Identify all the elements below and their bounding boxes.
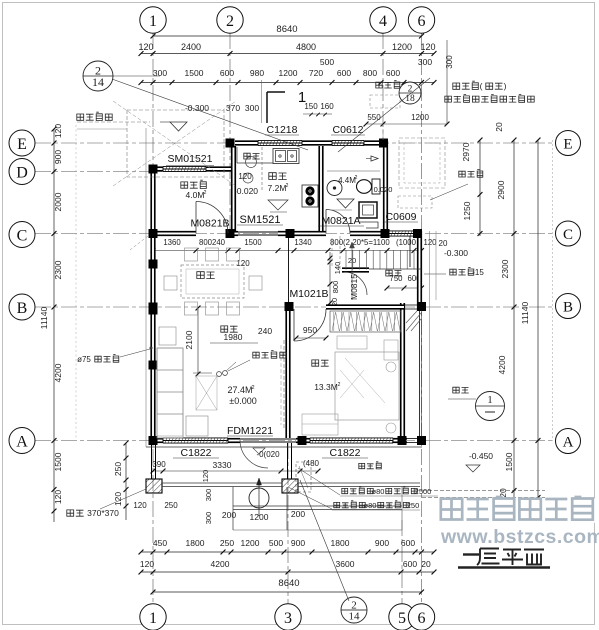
svg-text:C: C — [17, 227, 28, 244]
svg-text:2500: 2500 — [415, 487, 432, 496]
svg-text:E: E — [17, 136, 27, 153]
svg-text:120: 120 — [140, 559, 154, 569]
svg-text:20: 20 — [439, 239, 448, 248]
svg-text:300: 300 — [153, 68, 167, 78]
svg-text:1800: 1800 — [186, 538, 205, 548]
svg-text:1: 1 — [149, 610, 157, 627]
svg-text:250: 250 — [113, 462, 123, 476]
svg-text:(1000: (1000 — [396, 238, 417, 247]
svg-text:18: 18 — [405, 94, 415, 104]
svg-text:500: 500 — [320, 57, 334, 67]
svg-text:B: B — [17, 300, 28, 317]
svg-text:200: 200 — [222, 510, 236, 520]
svg-text:600: 600 — [220, 68, 234, 78]
svg-text:160: 160 — [320, 102, 334, 111]
svg-text:1500: 1500 — [53, 452, 63, 471]
svg-text:M0821A: M0821A — [321, 215, 360, 227]
svg-text:2000: 2000 — [53, 192, 63, 211]
svg-text:1500: 1500 — [504, 452, 514, 471]
svg-text:1200: 1200 — [411, 113, 429, 122]
svg-text:1360: 1360 — [163, 238, 181, 247]
svg-text:1200: 1200 — [241, 538, 260, 548]
svg-text:2: 2 — [338, 382, 341, 388]
svg-text:1500: 1500 — [185, 68, 204, 78]
svg-text:SM1521: SM1521 — [240, 214, 281, 226]
svg-text:300: 300 — [204, 512, 213, 525]
svg-text:1800: 1800 — [331, 538, 350, 548]
svg-text:(: ( — [480, 81, 483, 91]
svg-text:250: 250 — [220, 538, 234, 548]
svg-text:13.3M: 13.3M — [314, 382, 338, 392]
svg-text:250: 250 — [164, 501, 178, 510]
svg-text:600: 600 — [337, 68, 351, 78]
svg-text:3: 3 — [284, 610, 292, 627]
svg-text:390: 390 — [152, 460, 166, 469]
svg-text:M0815: M0815 — [349, 274, 359, 300]
svg-text:4200: 4200 — [497, 355, 507, 374]
svg-text:2900: 2900 — [496, 180, 506, 199]
svg-text:2100: 2100 — [184, 330, 194, 349]
svg-text:300: 300 — [204, 489, 213, 502]
svg-text:-0.450: -0.450 — [469, 451, 493, 461]
svg-text:2300: 2300 — [500, 259, 510, 278]
svg-text:120: 120 — [53, 490, 63, 504]
svg-text:300: 300 — [445, 55, 454, 69]
svg-text:120: 120 — [113, 492, 123, 506]
svg-text:SM01521: SM01521 — [168, 153, 213, 165]
svg-text:-0(020: -0(020 — [256, 450, 280, 459]
svg-text:C0609: C0609 — [386, 211, 417, 223]
svg-text:C1822: C1822 — [330, 447, 361, 459]
svg-text:1500: 1500 — [244, 238, 262, 247]
svg-text:600: 600 — [403, 559, 417, 569]
svg-text:120: 120 — [420, 42, 435, 52]
svg-text:2: 2 — [355, 175, 358, 181]
svg-text:900: 900 — [375, 538, 389, 548]
svg-text:2: 2 — [251, 385, 254, 391]
svg-text:C0612: C0612 — [333, 124, 364, 136]
svg-text:250: 250 — [407, 501, 420, 510]
svg-text:6: 6 — [418, 610, 426, 627]
svg-text:C1822: C1822 — [181, 447, 212, 459]
svg-text:4: 4 — [379, 13, 387, 30]
svg-text:450: 450 — [153, 538, 167, 548]
svg-text:4200: 4200 — [211, 559, 230, 569]
svg-text:www.bstzcs.com: www.bstzcs.com — [440, 526, 599, 548]
svg-text:120: 120 — [423, 238, 437, 247]
svg-text:3600: 3600 — [336, 559, 355, 569]
svg-text:600: 600 — [401, 538, 415, 548]
svg-text:2970: 2970 — [461, 142, 471, 161]
svg-text:FDM1221: FDM1221 — [227, 425, 273, 437]
svg-text:7.2M: 7.2M — [268, 183, 287, 193]
svg-text:E: E — [563, 136, 572, 152]
svg-text:1340: 1340 — [294, 238, 312, 247]
svg-text:M0821B: M0821B — [190, 218, 229, 230]
svg-text:800: 800 — [363, 68, 377, 78]
svg-text:2: 2 — [204, 190, 207, 196]
svg-text:240: 240 — [258, 326, 272, 336]
svg-text:): ) — [504, 81, 507, 91]
svg-text:140: 140 — [333, 262, 342, 275]
svg-text:500: 500 — [269, 538, 283, 548]
svg-text:4800: 4800 — [296, 42, 316, 52]
svg-text:D: D — [16, 164, 28, 181]
svg-text:27.4M: 27.4M — [227, 385, 252, 395]
svg-text:A: A — [563, 434, 574, 450]
svg-text:ø80: ø80 — [364, 501, 377, 510]
svg-text:20: 20 — [421, 559, 431, 569]
svg-text:14: 14 — [349, 610, 361, 622]
svg-text:6: 6 — [418, 13, 426, 30]
svg-text:ø75: ø75 — [77, 355, 91, 364]
svg-text:4200: 4200 — [53, 363, 63, 382]
svg-text:20*5=1100: 20*5=1100 — [352, 238, 390, 247]
svg-text:120: 120 — [53, 124, 63, 138]
svg-text:800: 800 — [331, 281, 340, 294]
svg-text:3330: 3330 — [213, 460, 232, 470]
svg-text:900: 900 — [291, 538, 305, 548]
svg-text:150: 150 — [304, 102, 318, 111]
svg-text:120: 120 — [201, 470, 210, 483]
svg-text:M1021B: M1021B — [289, 288, 328, 300]
svg-text:8640: 8640 — [278, 578, 299, 589]
svg-text:600: 600 — [386, 68, 400, 78]
svg-text:-0.300: -0.300 — [185, 103, 209, 113]
svg-text:2: 2 — [286, 183, 289, 189]
svg-text:370*370: 370*370 — [87, 508, 119, 518]
svg-text:120: 120 — [238, 172, 252, 181]
svg-text:11140: 11140 — [520, 302, 530, 325]
svg-text:-0.020: -0.020 — [234, 186, 258, 196]
svg-text:±0.000: ±0.000 — [229, 396, 256, 406]
svg-text:980: 980 — [250, 68, 264, 78]
svg-text:ø80: ø80 — [372, 487, 385, 496]
svg-text:14: 14 — [92, 75, 104, 89]
svg-text:1: 1 — [487, 394, 493, 406]
svg-text:11140: 11140 — [39, 307, 49, 330]
svg-text:1200: 1200 — [392, 42, 412, 52]
svg-text:370: 370 — [226, 103, 240, 113]
svg-text:20: 20 — [494, 122, 504, 132]
svg-text:8640: 8640 — [276, 24, 297, 35]
svg-text:-0.300: -0.300 — [444, 248, 468, 258]
svg-text:750: 750 — [389, 274, 403, 283]
svg-text:2: 2 — [226, 13, 234, 30]
svg-text:B: B — [563, 299, 573, 315]
svg-text:4.0M: 4.0M — [186, 190, 205, 200]
svg-text:0.020: 0.020 — [374, 185, 393, 194]
svg-text:1980: 1980 — [224, 332, 243, 342]
svg-text:200: 200 — [291, 509, 305, 519]
svg-text:300: 300 — [418, 57, 432, 67]
svg-text:2: 2 — [408, 85, 413, 95]
svg-text:800240: 800240 — [199, 238, 226, 247]
svg-text:C: C — [563, 227, 573, 243]
svg-text:1200: 1200 — [279, 68, 298, 78]
svg-text:1250: 1250 — [462, 201, 472, 220]
svg-text:120: 120 — [236, 259, 250, 268]
svg-text:900: 900 — [53, 150, 63, 164]
svg-text:5: 5 — [398, 610, 406, 627]
svg-text:2400: 2400 — [181, 42, 201, 52]
svg-text:720: 720 — [309, 68, 323, 78]
svg-text:1: 1 — [298, 89, 306, 106]
svg-text:120: 120 — [138, 42, 153, 52]
svg-text:C1218: C1218 — [267, 124, 298, 136]
svg-text:120: 120 — [133, 501, 147, 510]
svg-text:-15: -15 — [472, 268, 484, 277]
svg-text:300: 300 — [245, 103, 259, 113]
svg-text:1: 1 — [149, 13, 157, 30]
svg-text:A: A — [16, 433, 28, 450]
svg-text:2300: 2300 — [53, 260, 63, 279]
svg-text:550: 550 — [367, 113, 381, 122]
svg-text:4.4M: 4.4M — [338, 176, 356, 185]
